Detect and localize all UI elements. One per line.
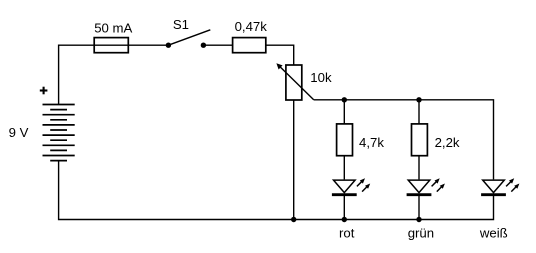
resistor R3 2,2k [412, 124, 428, 156]
svg-text:rot: rot [339, 226, 355, 241]
svg-text:9 V: 9 V [9, 125, 29, 140]
wire wiper rail (top rail of LED section, continues down the weiss branch) [314, 100, 494, 180]
node junction bottom rail / potentiometer [291, 217, 296, 222]
svg-text:2,2k: 2,2k [435, 135, 460, 150]
svg-text:4,7k: 4,7k [359, 135, 384, 150]
node junction top rail / rot branch [342, 97, 347, 102]
svg-text:10k: 10k [310, 70, 332, 85]
wire switch to resistor R1 [203, 44, 232, 46]
wire fuse to switch [128, 44, 168, 46]
wire R3 to LED gruen [418, 156, 420, 180]
svg-text:50 mA: 50 mA [94, 21, 132, 36]
svg-text:0,47k: 0,47k [235, 19, 268, 34]
wire top rail to R3 [418, 100, 420, 124]
potentiometer P1 10k [276, 63, 313, 100]
resistor R1 0,47k [233, 38, 266, 53]
svg-text:weiß: weiß [479, 226, 508, 241]
wire LED gruen to bottom rail [418, 195, 420, 220]
wire bottom rail (battery minus to LED weiss cathode) [59, 161, 494, 220]
wire potentiometer bottom to bottom rail [293, 100, 295, 220]
node junction bottom rail / gruen branch [416, 217, 421, 222]
LED D1 rot [332, 178, 370, 194]
wire R2 to LED rot [343, 156, 345, 180]
LED D2 gruen [407, 178, 445, 194]
LED D3 weiss [481, 178, 519, 194]
node junction bottom rail / rot branch [342, 217, 347, 222]
wire top rail to R2 [343, 100, 345, 124]
label + (battery positive) [40, 87, 48, 95]
node junction top rail / gruen branch [416, 97, 421, 102]
battery B1 9V [43, 105, 75, 161]
svg-text:grün: grün [408, 226, 434, 241]
switch S1 [166, 30, 211, 48]
fuse F1 50 mA [94, 38, 128, 53]
wire R1 to potentiometer top [266, 45, 294, 65]
wire battery+ to fuse (top-left corner) [59, 45, 95, 104]
svg-text:S1: S1 [173, 17, 189, 32]
resistor R2 4,7k [337, 124, 353, 156]
wire LED rot to bottom rail [343, 195, 345, 220]
